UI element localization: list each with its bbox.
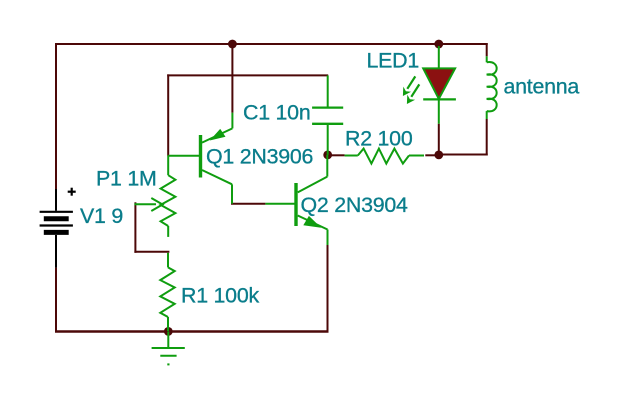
wire bottom right (LED to antenna) bbox=[439, 154, 488, 156]
wire LED cathode drop bbox=[438, 124, 440, 155]
junction top rail / LED anode bbox=[434, 40, 443, 49]
wire R2 left bbox=[329, 154, 345, 156]
junction top rail / Q1 emitter bbox=[228, 40, 237, 49]
svg-text:V1 9: V1 9 bbox=[80, 204, 123, 228]
LED emission arrow 2 bbox=[411, 84, 419, 96]
wire right vertical lower (from antenna) bbox=[486, 119, 488, 156]
svg-text:antenna: antenna bbox=[504, 74, 580, 98]
wire left vertical upper bbox=[55, 43, 57, 189]
svg-text:R2 100: R2 100 bbox=[345, 126, 413, 150]
transistor Q2 2N3904 (NPN) bbox=[265, 155, 327, 245]
wire bottom rail bbox=[55, 330, 329, 333]
wire P1 wiper return horizontal bbox=[134, 251, 169, 253]
wire second rail bbox=[167, 74, 328, 76]
wire Q1 emitter vertical bbox=[231, 44, 233, 113]
svg-text:Q1 2N3906: Q1 2N3906 bbox=[206, 144, 313, 168]
junction R2 / LED cathode / antenna bbox=[434, 151, 443, 160]
potentiometer P1 bbox=[134, 156, 175, 237]
junction C1 bottom / Q2 collector / R2 bbox=[323, 151, 332, 160]
LED emission arrow 1 bbox=[407, 76, 415, 88]
wire Q2 emitter drop bbox=[327, 245, 329, 332]
wire right vertical upper (to antenna) bbox=[486, 43, 488, 56]
battery V1 bbox=[40, 188, 76, 268]
ground bbox=[152, 331, 185, 364]
wire Q1 collector to Q2 base bbox=[231, 203, 265, 205]
svg-text:Q2 2N3904: Q2 2N3904 bbox=[301, 193, 409, 217]
svg-text:P1 1M: P1 1M bbox=[96, 166, 157, 190]
svg-text:C1 10n: C1 10n bbox=[243, 101, 310, 125]
wire P1 wiper return vertical bbox=[134, 202, 136, 253]
capacitor C1 bbox=[312, 75, 343, 154]
resistor R1 bbox=[160, 253, 174, 331]
junction bottom rail / R1 / ground bbox=[164, 327, 173, 336]
resistor R2 bbox=[345, 149, 424, 164]
wire top rail bbox=[55, 43, 488, 45]
transistor Q1 2N3906 (PNP) bbox=[168, 113, 232, 204]
wire left vertical lower bbox=[55, 268, 57, 332]
svg-text:R1 100k: R1 100k bbox=[181, 284, 259, 308]
antenna L1 (coil) bbox=[487, 56, 497, 119]
wire drop from second rail to P1/Q1 base bbox=[167, 74, 169, 155]
svg-text:LED1: LED1 bbox=[367, 49, 420, 73]
LED LED1 bbox=[403, 46, 456, 124]
wire R2 right bbox=[425, 154, 436, 156]
